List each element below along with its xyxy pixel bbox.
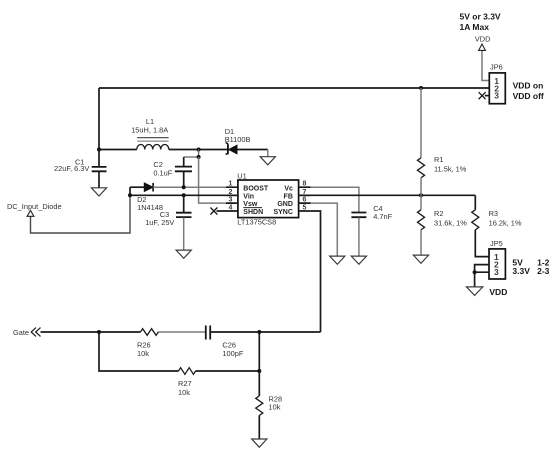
- svg-text:BOOST: BOOST: [243, 185, 269, 192]
- svg-text:16.2k, 1%: 16.2k, 1%: [489, 218, 522, 227]
- svg-text:SHDN: SHDN: [243, 209, 263, 216]
- svg-text:10k: 10k: [269, 402, 281, 411]
- svg-text:SYNC: SYNC: [273, 209, 292, 216]
- svg-text:15uH, 1.8A: 15uH, 1.8A: [131, 126, 168, 135]
- svg-text:22uF, 6.3V: 22uF, 6.3V: [54, 164, 89, 173]
- svg-text:VDD off: VDD off: [513, 91, 544, 101]
- svg-text:11.5k, 1%: 11.5k, 1%: [434, 164, 467, 173]
- svg-text:2-3: 2-3: [537, 266, 550, 276]
- svg-text:JP5: JP5: [490, 239, 503, 248]
- svg-text:4.7nF: 4.7nF: [373, 212, 392, 221]
- svg-text:6: 6: [303, 197, 307, 204]
- svg-text:FB: FB: [284, 193, 293, 200]
- svg-text:Vin: Vin: [243, 193, 254, 200]
- svg-text:JP6: JP6: [490, 62, 503, 71]
- svg-text:R2: R2: [434, 209, 443, 218]
- svg-text:31.6k, 1%: 31.6k, 1%: [434, 218, 467, 227]
- svg-text:8: 8: [303, 181, 307, 188]
- svg-text:DC_Input_Diode: DC_Input_Diode: [7, 202, 62, 211]
- svg-text:4: 4: [229, 205, 233, 212]
- svg-text:5: 5: [303, 205, 307, 212]
- svg-text:1: 1: [229, 181, 233, 188]
- svg-text:1uF, 25V: 1uF, 25V: [145, 218, 174, 227]
- svg-text:VDD on: VDD on: [513, 81, 544, 91]
- svg-text:3: 3: [494, 91, 499, 101]
- svg-text:10k: 10k: [137, 349, 149, 358]
- svg-text:3.3V: 3.3V: [512, 266, 530, 276]
- svg-text:3: 3: [229, 197, 233, 204]
- svg-text:3: 3: [494, 267, 499, 277]
- svg-text:5V or 3.3V: 5V or 3.3V: [460, 12, 501, 22]
- svg-text:U1: U1: [237, 171, 246, 180]
- svg-text:1A Max: 1A Max: [460, 22, 490, 32]
- svg-text:R27: R27: [178, 379, 192, 388]
- svg-text:LT1375CS8: LT1375CS8: [237, 217, 276, 226]
- svg-text:100pF: 100pF: [222, 349, 243, 358]
- svg-text:10k: 10k: [178, 388, 190, 397]
- svg-text:GND: GND: [277, 201, 293, 208]
- svg-text:VDD: VDD: [489, 287, 507, 297]
- svg-text:B1100B: B1100B: [225, 135, 251, 144]
- svg-text:Gate: Gate: [13, 328, 29, 337]
- svg-text:VDD: VDD: [475, 35, 491, 44]
- svg-text:Vc: Vc: [284, 185, 293, 192]
- svg-text:2: 2: [229, 189, 233, 196]
- svg-text:R1: R1: [434, 155, 443, 164]
- svg-text:0.1uF: 0.1uF: [153, 169, 172, 178]
- svg-text:R3: R3: [489, 209, 498, 218]
